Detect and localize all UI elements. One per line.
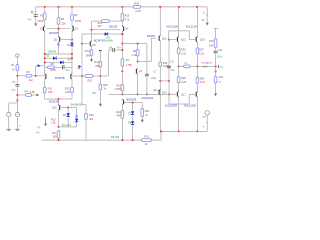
svg-text:MJL21193: MJL21193 bbox=[142, 97, 154, 100]
svg-text:R18: R18 bbox=[89, 114, 94, 117]
svg-text:R27: R27 bbox=[199, 49, 204, 52]
svg-text:R12: R12 bbox=[65, 87, 70, 90]
svg-text:0.22: 0.22 bbox=[181, 52, 186, 55]
svg-text:0.00: 0.00 bbox=[203, 66, 208, 69]
svg-text:4.7k: 4.7k bbox=[125, 18, 130, 21]
svg-text:Q10: Q10 bbox=[52, 107, 57, 110]
svg-text:R31: R31 bbox=[219, 76, 224, 79]
svg-text:Q14: Q14 bbox=[162, 92, 167, 95]
svg-text:R26: R26 bbox=[181, 49, 186, 52]
svg-text:4k7: 4k7 bbox=[98, 25, 103, 28]
svg-text:3k3: 3k3 bbox=[89, 118, 94, 121]
svg-text:10R: 10R bbox=[48, 91, 53, 94]
svg-text:180: 180 bbox=[52, 136, 57, 139]
svg-text:470R: 470R bbox=[75, 19, 81, 23]
svg-text:47p: 47p bbox=[117, 47, 122, 50]
svg-text:1N4148: 1N4148 bbox=[104, 40, 113, 43]
svg-text:22k: 22k bbox=[61, 21, 66, 25]
svg-text:RC4: RC4 bbox=[85, 50, 91, 53]
svg-text:100p: 100p bbox=[151, 77, 157, 80]
svg-text:R17: R17 bbox=[52, 132, 57, 135]
svg-text:1N4148 D6: 1N4148 D6 bbox=[70, 103, 83, 106]
svg-text:Q17: Q17 bbox=[181, 93, 186, 96]
svg-text:-: - bbox=[12, 125, 13, 128]
svg-text:R23: R23 bbox=[144, 136, 149, 139]
svg-text:0.22: 0.22 bbox=[200, 81, 205, 84]
svg-text:2k2: 2k2 bbox=[29, 79, 34, 82]
svg-text:100n: 100n bbox=[217, 55, 223, 58]
svg-text:47n: 47n bbox=[28, 18, 33, 21]
svg-text:▸: ▸ bbox=[203, 11, 204, 14]
svg-text:R24: R24 bbox=[134, 2, 139, 6]
svg-text:R15: R15 bbox=[125, 15, 130, 18]
svg-text:470R: 470R bbox=[115, 88, 121, 91]
svg-text:10R: 10R bbox=[209, 45, 214, 48]
svg-text:MJL21193: MJL21193 bbox=[165, 105, 177, 108]
svg-text:MJL21194: MJL21194 bbox=[167, 25, 179, 28]
svg-text:10R: 10R bbox=[65, 91, 70, 94]
svg-text:1.1k: 1.1k bbox=[131, 54, 136, 57]
svg-text:1N4148: 1N4148 bbox=[48, 50, 57, 53]
svg-text:R6: R6 bbox=[61, 17, 65, 21]
svg-text:R19: R19 bbox=[116, 84, 121, 87]
svg-text:C10: C10 bbox=[218, 49, 223, 52]
svg-text:47u: 47u bbox=[36, 131, 41, 134]
svg-text:Q16: Q16 bbox=[200, 38, 205, 41]
svg-text:Q1: Q1 bbox=[40, 27, 44, 31]
svg-text:R11: R11 bbox=[48, 87, 53, 90]
svg-text:R28: R28 bbox=[181, 77, 186, 80]
svg-text:0.22: 0.22 bbox=[181, 81, 186, 84]
svg-text:MJL21194: MJL21194 bbox=[186, 25, 198, 28]
svg-text:0.22: 0.22 bbox=[136, 9, 142, 13]
svg-text:R30: R30 bbox=[209, 40, 214, 43]
svg-text:R5: R5 bbox=[74, 13, 78, 17]
svg-text:BD139: BD139 bbox=[109, 25, 117, 29]
svg-text:▾: ▾ bbox=[20, 125, 21, 128]
svg-text:0.22: 0.22 bbox=[199, 53, 204, 56]
svg-text:Q5: Q5 bbox=[54, 37, 58, 41]
svg-text:(V): (V) bbox=[220, 66, 223, 69]
svg-text:47u: 47u bbox=[37, 127, 42, 130]
svg-text:Q2: Q2 bbox=[75, 27, 79, 31]
svg-text:Voutput: Voutput bbox=[201, 60, 211, 64]
svg-text:4n7+4n7: 4n7+4n7 bbox=[62, 124, 72, 127]
svg-text:47u: 47u bbox=[11, 88, 16, 92]
svg-text:Q13: Q13 bbox=[153, 89, 158, 92]
svg-text:1.8k: 1.8k bbox=[51, 121, 56, 124]
svg-text:BC557B: BC557B bbox=[127, 97, 137, 101]
svg-text:Q12: Q12 bbox=[162, 37, 167, 40]
svg-text:R16: R16 bbox=[103, 84, 108, 87]
svg-text:100R: 100R bbox=[50, 69, 56, 72]
svg-text:1.75k: 1.75k bbox=[126, 64, 133, 67]
svg-text:47u: 47u bbox=[66, 69, 71, 72]
svg-text:R29: R29 bbox=[200, 77, 205, 80]
svg-text:470R: 470R bbox=[38, 20, 44, 23]
svg-text:Q6: Q6 bbox=[92, 44, 96, 47]
svg-text:R22: R22 bbox=[116, 111, 121, 114]
svg-text:C2: C2 bbox=[12, 80, 16, 84]
svg-text:R20: R20 bbox=[88, 79, 93, 82]
svg-text:R21: R21 bbox=[145, 110, 150, 113]
svg-text:4R7: 4R7 bbox=[117, 115, 122, 118]
svg-text:BC557B: BC557B bbox=[49, 100, 59, 104]
svg-text:Q15: Q15 bbox=[181, 38, 186, 41]
svg-text:BC547B: BC547B bbox=[50, 31, 60, 35]
svg-text:BD139: BD139 bbox=[147, 34, 155, 38]
svg-text:1.8k: 1.8k bbox=[30, 91, 35, 94]
svg-text:D9 D10: D9 D10 bbox=[111, 136, 120, 139]
svg-text:BC547B: BC547B bbox=[94, 38, 104, 42]
svg-text:5k6: 5k6 bbox=[86, 55, 91, 58]
svg-text:R14: R14 bbox=[94, 61, 99, 64]
svg-text:BC557B: BC557B bbox=[55, 76, 65, 80]
svg-text:MJL21193: MJL21193 bbox=[184, 105, 196, 108]
